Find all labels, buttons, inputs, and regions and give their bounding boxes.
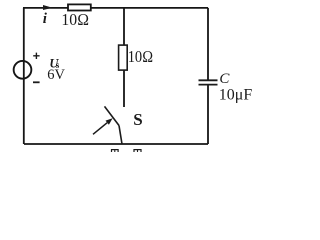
voltage source Us (14, 61, 32, 80)
wire left (source branch) (23, 8, 25, 144)
resistor 10Ω (top, horizontal) (68, 4, 91, 10)
capacitor C (199, 80, 218, 84)
polarity + (33, 53, 39, 59)
svg-text:S: S (133, 110, 142, 129)
wire top (node a: source + to capacitor +) (23, 7, 208, 9)
wire middle branch (top of R2 / switch) (123, 8, 125, 107)
caption fragment (clipped characters at bottom) (112, 150, 142, 156)
wire bottom (node b) (24, 143, 208, 145)
resistor 10Ω (middle, vertical) (119, 45, 128, 70)
current arrow i (43, 5, 53, 10)
switch S (105, 106, 123, 144)
svg-text:C: C (219, 71, 230, 87)
switch closing arrow (93, 118, 113, 134)
svg-text:10Ω: 10Ω (128, 47, 154, 66)
svg-text:10Ω: 10Ω (61, 10, 89, 29)
polarity - (33, 81, 40, 83)
svg-text:10μF: 10μF (219, 87, 253, 104)
svg-text:6V: 6V (47, 67, 65, 83)
wire right (capacitor branch) (207, 8, 209, 144)
